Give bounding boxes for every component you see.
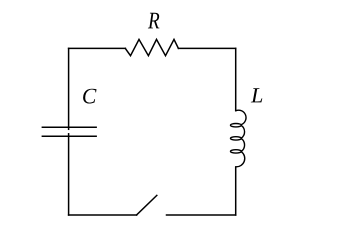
label C	[83, 89, 96, 104]
wire right lower segment	[235, 167, 237, 215]
switch S (open) lever	[137, 195, 157, 215]
wire left lower segment	[68, 134, 70, 215]
resistor R	[125, 39, 178, 55]
wire top-right segment	[178, 47, 235, 49]
capacitor C	[42, 127, 97, 136]
wire top-left segment	[69, 47, 126, 49]
wire bottom-right segment	[167, 214, 236, 216]
wire left upper segment	[68, 48, 70, 129]
label L	[251, 88, 263, 102]
wire bottom-left segment	[69, 214, 137, 216]
label R	[148, 13, 160, 29]
inductor L	[231, 110, 247, 167]
wire right upper segment	[235, 48, 237, 110]
